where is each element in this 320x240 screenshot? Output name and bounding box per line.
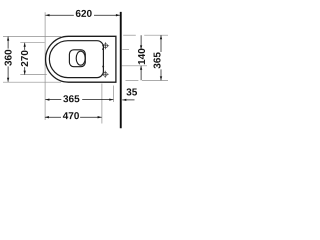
extension line: front of pan vertical [44,12,46,120]
extension line: right top (365R top) [123,34,136,36]
seat fixing dot lower [102,66,104,68]
dimension 365 bottom label [63,95,79,102]
toilet rim inner outline [49,41,103,78]
dimension 360 line [7,37,9,49]
dimension 620 line [46,14,74,16]
extension line: 365R bottom [126,79,139,81]
dimension 140 arrows [140,45,142,49]
dimension 620 arrows [46,14,50,16]
extension line: 270 top [20,42,44,44]
dimension 140 label [138,49,145,65]
fixing hole crosshair lower [102,71,109,78]
dimension 365 right line [160,35,162,52]
extension line: 270 bottom [20,74,47,76]
dimension 470 label [63,112,79,119]
extension line: top-left horizontal (360 top) [3,35,61,37]
dimension 470 arrows [45,116,49,118]
dimension 365 right label [153,52,160,68]
dimension 270 line [24,43,26,50]
extension line: bottom-left horizontal (360 bottom) [3,81,61,83]
seat fixing dot upper [102,48,104,50]
extension line: seat hole lower [122,65,147,67]
wall line [120,12,122,128]
extension line: bottom vertical near wall [113,86,115,103]
dimension 470 line [45,116,61,118]
fixing hole crosshair upper [102,42,109,49]
dimension 365 right arrows [160,35,162,39]
toilet body outer outline [46,36,116,82]
dimension 35 line [122,99,134,101]
dimension 365 bottom line [45,99,61,101]
dimension 360 arrows [7,37,9,41]
dimension 140 line [140,35,142,49]
dimension 360 label [5,50,12,66]
dimension 270 label [21,51,28,67]
extension line: bottom vertical at drain [101,84,103,124]
dimension 365 bottom arrows [45,98,49,100]
sump outline [69,50,85,67]
dimension 35 label [126,88,137,95]
drain ellipse [76,51,85,65]
dimension 35 arrow [122,99,126,101]
dimension 620 label [76,10,92,17]
dimension 270 arrows [24,43,26,47]
extension line: seat hole upper [122,48,129,50]
